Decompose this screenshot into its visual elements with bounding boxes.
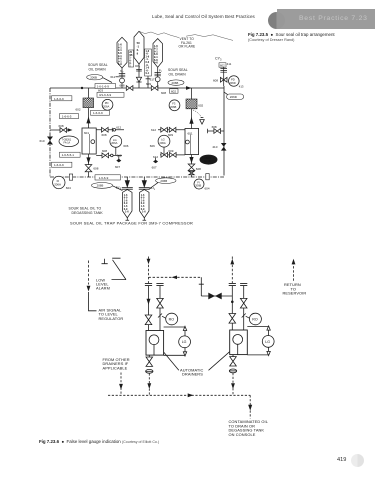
vent header wavy wire: [139, 31, 171, 35]
vessel T1 sour seal trap: [117, 37, 127, 68]
label DK2: [135, 64, 140, 68]
branch wire 608 right: [208, 125, 225, 134]
gauge line bottom left trap: [96, 147, 122, 158]
instrument LG left: [179, 336, 191, 348]
svg-text:FA-1B: FA-1B: [204, 160, 211, 163]
svg-text:603: 603: [98, 89, 103, 93]
svg-text:602: 602: [76, 108, 81, 112]
label AIR SIGNAL TO LEVEL REGULATOR: [99, 307, 124, 321]
svg-text:6-: 6-: [137, 48, 139, 52]
svg-text:602: 602: [171, 89, 176, 93]
svg-text:602: 602: [220, 63, 225, 67]
svg-text:606: 606: [150, 144, 155, 148]
instrument FI 206A bottom left: [53, 176, 72, 190]
svg-text:RO: RO: [252, 317, 258, 321]
label BY3: [116, 185, 122, 190]
svg-text:206B: 206B: [195, 184, 201, 188]
svg-text:BY3: BY3: [116, 185, 122, 190]
label 608 right boundary: [213, 78, 218, 82]
riser to cooler right: [191, 88, 193, 99]
svg-text:PD: PD: [231, 77, 235, 81]
trap vessel 601 right: [185, 129, 199, 155]
tag column 1-6-6-1-9: [145, 49, 152, 76]
svg-text:OIL DRAIN: OIL DRAIN: [169, 72, 187, 76]
svg-text:206A: 206A: [54, 182, 61, 186]
arrow down on drop: [248, 405, 252, 411]
vessel T3 sour seal trap: [153, 39, 162, 68]
label 608b: [161, 91, 166, 95]
label 602 left cooler: [76, 108, 81, 112]
label SOUR SEAL OIL TO DEGASSING TANK: [69, 206, 104, 214]
tag box E 1-6-6-9: [52, 162, 72, 167]
valve V3 right assembly inlet: [229, 314, 236, 331]
tag box 1-6-6-9 on bottom boundary: [95, 175, 120, 180]
svg-text:3/1-6-6-9: 3/1-6-6-9: [99, 93, 112, 97]
package boundary left wire: [49, 88, 51, 177]
svg-text:206B: 206B: [170, 105, 176, 109]
gauge standpipe right: [247, 327, 268, 355]
svg-text:609: 609: [168, 133, 173, 137]
small trap S1: [122, 188, 133, 221]
label 603: [98, 89, 103, 93]
flange pair left pipe: [145, 283, 152, 285]
level switch LS tee symbol: [102, 259, 108, 264]
label LOW LEVEL ALARM: [96, 278, 110, 291]
return wire to reservoir (dashed): [293, 262, 295, 281]
svg-text:411: 411: [227, 62, 232, 66]
supply wire into left drainer (dashed): [148, 257, 150, 284]
header running title: [152, 14, 255, 19]
gauge arrows: [183, 326, 186, 356]
gauge line top left trap: [96, 126, 124, 137]
riser T2b: [147, 76, 149, 88]
arrow down on from-other wire: [119, 384, 123, 390]
arrow up on return wire: [292, 259, 296, 265]
svg-text:ALARM: ALARM: [96, 286, 110, 291]
arrow left on branch wire: [172, 276, 178, 280]
joint on bottom boundary right: [206, 174, 209, 180]
label SOUR SEAL OIL TRAP PACKAGE: [70, 221, 193, 226]
svg-text:617: 617: [150, 77, 155, 81]
valve (closed, filled) on crossover: [208, 293, 221, 300]
label SOUR SEAL OIL DRAIN left: [88, 63, 108, 71]
trap inlet wire with up arrow: [88, 108, 90, 128]
equipment oval T-GB261 FA-1A: [59, 136, 79, 147]
svg-text:608: 608: [213, 78, 218, 82]
valve 608 on header: [126, 86, 133, 91]
line tag pill 206D: [224, 92, 244, 99]
svg-text:206B: 206B: [172, 81, 179, 85]
header band: [277, 9, 375, 29]
svg-text:607: 607: [152, 166, 157, 170]
junction node on header: [81, 87, 83, 89]
svg-text:206A: 206A: [103, 105, 109, 109]
arrow down drain left: [147, 383, 151, 389]
svg-text:FA-1A: FA-1A: [64, 142, 71, 145]
label SOUR SEAL OIL DRAIN right: [168, 68, 188, 76]
instrument LG 206A right: [150, 135, 170, 148]
arrow up trap inlet right: [189, 117, 193, 124]
riser T2: [138, 64, 140, 88]
drainer pot right: [230, 330, 248, 355]
instrument LG right: [262, 336, 274, 348]
equipment oval T-GB261 FA-1B (dark): [200, 155, 217, 164]
label P2: [159, 68, 162, 72]
joint on bottom boundary: [69, 174, 72, 180]
arrow on header wire: [186, 86, 192, 90]
svg-text:LG: LG: [265, 340, 270, 344]
supply wire into right drainer (dashed): [231, 257, 233, 284]
figure 7.23.6 caption: [39, 439, 159, 444]
instrument RO right: [246, 313, 262, 325]
main header wire: [50, 87, 224, 89]
svg-text:410: 410: [212, 145, 217, 149]
header band text: [299, 15, 368, 22]
tag box B 1-6-6-5: [60, 114, 79, 119]
orifice tick right bypass: [242, 314, 246, 318]
svg-text:1-6-6-9: 1-6-6-9: [99, 176, 109, 180]
drain wire dashed left: [148, 373, 150, 395]
tag box 602 on header: [170, 89, 179, 94]
vent header wavy wire right: [171, 35, 234, 41]
svg-text:608: 608: [59, 124, 64, 128]
drain wire dashed right: [232, 373, 234, 395]
svg-text:REGULATOR: REGULATOR: [99, 316, 124, 321]
label CONTAMINATED OIL ...: [229, 419, 269, 437]
svg-text:612: 612: [117, 153, 122, 157]
flange pair right pipe: [240, 283, 247, 285]
trap drain left: [85, 154, 99, 177]
label 608: [120, 84, 125, 88]
line tag oval 206B lower right: [149, 178, 177, 190]
svg-text:1-6-6-9: 1-6-6-9: [54, 163, 64, 167]
svg-text:LG: LG: [182, 340, 187, 344]
svg-text:CY3: CY3: [215, 57, 222, 62]
tick 611: [116, 76, 119, 78]
crossover pipe: [201, 295, 232, 297]
valve 610 (filled) on boundary: [40, 137, 54, 145]
trap drain right: [188, 155, 201, 178]
label FROM OTHER DRAINERS IF APPLICABLE: [103, 357, 130, 371]
drain valve under right pot: [230, 355, 237, 366]
line tag oval 206B right: [168, 80, 184, 85]
svg-text:DRAINERS: DRAINERS: [182, 372, 203, 377]
valve V4 right bypass: [240, 298, 247, 308]
bypass pipe right assembly: [243, 286, 245, 330]
label BJ3: [150, 186, 156, 191]
svg-text:9-1: 9-1: [146, 72, 150, 75]
svg-text:206D: 206D: [230, 95, 238, 99]
svg-text:604: 604: [205, 186, 210, 190]
svg-text:P₂: P₂: [159, 68, 162, 72]
riser to cooler: [88, 88, 90, 98]
collection header (dashed): [108, 394, 250, 396]
line tag oval 206B lower left: [91, 183, 122, 191]
gauge standpipe left: [164, 327, 185, 355]
flange stack right boundary: [220, 69, 227, 73]
svg-text:206B: 206B: [160, 179, 167, 183]
orifice tick on bypass: [158, 314, 162, 318]
svg-text:1-6-6-9: 1-6-6-9: [93, 111, 103, 115]
gauge arrows right: [267, 326, 270, 356]
arrow up trap inlet: [86, 117, 90, 124]
sample point glyph: [200, 118, 205, 125]
left inlet pipe right assembly: [231, 286, 233, 314]
svg-text:N₂: N₂: [120, 69, 123, 73]
riser T3: [157, 67, 159, 88]
riser T1: [121, 68, 123, 88]
svg-text:SOUR SEAL OIL TRAP PACKAGE FOR: SOUR SEAL OIL TRAP PACKAGE FOR 3M9-7 COM…: [70, 221, 193, 226]
level switch arm: [112, 258, 127, 279]
drainer pot left: [146, 331, 164, 356]
arrow right on header: [188, 393, 194, 397]
label CY3: [215, 57, 222, 62]
svg-text:602: 602: [198, 104, 203, 108]
svg-text:609: 609: [168, 149, 173, 153]
flange pair left pipe: [229, 283, 236, 285]
svg-text:610: 610: [40, 139, 45, 143]
line tag oval 206B left: [87, 75, 112, 83]
orifice lens under left pot: [146, 369, 153, 373]
svg-text:608: 608: [93, 167, 98, 171]
cooler (hatched) left: [83, 98, 94, 108]
svg-text:1-6: 1-6: [142, 211, 146, 214]
svg-text:206B: 206B: [97, 184, 104, 188]
valve 609 on header: [151, 86, 158, 91]
right bypass pipe: [159, 286, 161, 331]
svg-text:5C: 5C: [137, 41, 140, 45]
instrument PD 206A: [102, 99, 113, 110]
wire CY3 to header: [223, 67, 225, 86]
arrow on air signal wire: [87, 286, 91, 292]
leader to left pot: [164, 352, 179, 370]
instrument FI 206B bottom right: [194, 179, 210, 190]
svg-text:APPLICABLE: APPLICABLE: [103, 365, 128, 370]
svg-text:1-6: 1-6: [125, 211, 129, 214]
gauge line top right trap: [151, 127, 185, 136]
trap vessel 601 left: [82, 128, 96, 154]
svg-text:ON CONSOLE: ON CONSOLE: [229, 432, 256, 437]
arrow down drain right: [231, 383, 235, 389]
air signal wire (dashed): [89, 261, 97, 311]
header ball: [268, 12, 285, 29]
label 602 right cooler: [198, 104, 203, 108]
seal pot T1: [120, 78, 125, 83]
arrow up on right supply: [230, 259, 234, 265]
svg-text:RESERVOIR: RESERVOIR: [283, 291, 307, 296]
valve V1 left inlet: [145, 315, 152, 331]
drop arrow to small trap 1: [125, 177, 129, 187]
orifice lens under right pot: [229, 369, 236, 373]
tag box 1-6-6-9 mid: [91, 110, 110, 115]
tag box 3/1-6-6-9: [97, 92, 124, 97]
seal pot T3: [155, 77, 160, 82]
svg-text:1-6-5-5-1: 1-6-5-5-1: [62, 153, 75, 157]
junction dot: [231, 301, 234, 304]
svg-text:6-9: 6-9: [118, 62, 122, 66]
svg-text:604: 604: [66, 186, 71, 190]
arrow down on left supply: [147, 259, 151, 265]
header drop wire (dashed): [249, 395, 251, 418]
left inlet pipe: [148, 286, 150, 315]
instrument PD 206D: [229, 76, 244, 89]
svg-text:LG: LG: [161, 138, 165, 142]
trap inlet wire right: [191, 109, 193, 129]
svg-text:OR FLARE: OR FLARE: [179, 45, 196, 49]
flange stack T1: [119, 74, 125, 77]
svg-text:DEGASSING TANK: DEGASSING TANK: [72, 211, 104, 215]
page number: [337, 457, 346, 463]
figure 7.23.5 caption: [248, 32, 335, 37]
valve 608 right boundary: [220, 77, 227, 82]
tag box A 1-6-6-9: [52, 96, 72, 101]
flange pair right pipe: [156, 283, 163, 285]
flange stack T3: [155, 73, 161, 76]
vent stub 607 right: [152, 158, 159, 170]
svg-text:T-GB261: T-GB261: [202, 158, 212, 160]
small trap S2: [139, 188, 150, 221]
valve V2 bypass: [157, 298, 164, 308]
svg-text:206A: 206A: [111, 141, 117, 145]
svg-text:601: 601: [188, 132, 193, 136]
label VENT TO FA-261 OR FLARE: [179, 37, 196, 49]
svg-text:608: 608: [161, 91, 166, 95]
instrument F3 206B: [169, 100, 180, 111]
svg-text:206B: 206B: [90, 75, 97, 79]
svg-text:PD: PD: [105, 101, 109, 105]
svg-text:LG: LG: [113, 138, 117, 142]
package boundary right wire: [223, 86, 225, 176]
svg-text:601: 601: [84, 131, 89, 135]
svg-text:F3: F3: [172, 102, 176, 106]
svg-text:608: 608: [102, 133, 107, 137]
gauge line bottom right trap: [153, 147, 185, 159]
svg-text:611: 611: [110, 75, 115, 79]
svg-text:609: 609: [146, 82, 151, 86]
svg-text:BJ3: BJ3: [150, 186, 156, 191]
svg-text:607: 607: [115, 165, 120, 169]
svg-text:612: 612: [116, 126, 121, 130]
valve 410 (filled) on right boundary: [212, 143, 226, 151]
label 609: [146, 82, 151, 86]
vessel T2 sour seal trap: [134, 31, 144, 64]
svg-text:413: 413: [239, 85, 244, 89]
svg-text:206A: 206A: [159, 141, 165, 145]
check valve T2: [136, 77, 141, 82]
tag box 1-6-1-6-9 on header: [95, 84, 116, 89]
svg-text:SOUR SEAL OIL TO: SOUR SEAL OIL TO: [69, 206, 102, 210]
instrument RO left: [162, 313, 178, 325]
junction tick: [199, 277, 204, 296]
svg-text:612: 612: [151, 128, 156, 132]
svg-text:206D: 206D: [229, 81, 235, 85]
svg-text:608: 608: [196, 167, 201, 171]
package boundary bottom wire: [50, 176, 224, 178]
label 617: [150, 77, 155, 81]
signal leader dashed: [193, 110, 202, 118]
drain valve under left pot: [146, 355, 153, 366]
label RETURN TO RESERVOIR: [283, 282, 307, 296]
label AUTOMATIC DRAINERS: [180, 367, 204, 376]
float circle: [149, 335, 159, 345]
svg-text:1-6-6-9: 1-6-6-9: [54, 97, 64, 101]
svg-text:606: 606: [123, 144, 128, 148]
arrow down on left inlet: [147, 299, 151, 305]
label 611: [110, 75, 115, 79]
svg-text:608: 608: [212, 125, 217, 129]
tick 617: [146, 78, 151, 80]
svg-text:608: 608: [102, 149, 107, 153]
page ball: [351, 454, 365, 468]
branch wire to air signal (dashed): [149, 276, 202, 278]
flange stack T2: [136, 69, 142, 71]
svg-text:OIL DRAIN: OIL DRAIN: [89, 67, 107, 71]
svg-text:1-6-6-5: 1-6-6-5: [62, 115, 72, 119]
leader to right pot: [209, 352, 230, 371]
from-other-drainers wire (dashed): [120, 373, 122, 396]
nitrogen tag N2: [120, 69, 123, 73]
tag column 206B1: [129, 50, 134, 68]
cooler (hatched) right: [186, 99, 197, 109]
drop arrow to small trap 2: [142, 177, 146, 187]
svg-text:DK₂: DK₂: [135, 64, 140, 68]
float circle right: [233, 335, 243, 345]
instrument LG 206A left: [110, 136, 129, 149]
vent stub 607 left: [115, 155, 121, 168]
svg-text:RO: RO: [169, 317, 175, 321]
svg-text:9-6: 9-6: [154, 61, 158, 65]
tag box 602 right: [219, 62, 232, 67]
drain branch wire with valve 608: [50, 124, 73, 133]
tag box D 1-6-5-5-1: [60, 152, 81, 157]
